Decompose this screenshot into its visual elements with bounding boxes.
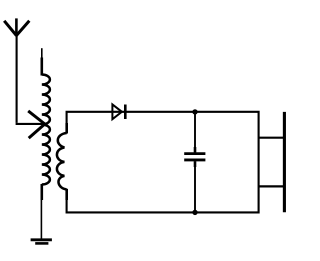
wire tap horizontal (16, 123, 45, 125)
node junction bottom (192, 210, 197, 215)
wire tank circuit loop (67, 112, 259, 213)
arrow tap into coil L1 (28, 111, 45, 138)
diode D1 (112, 104, 125, 119)
inductor L2 secondary coil (57, 123, 67, 200)
wire capacitor bottom lead (194, 161, 196, 212)
wire antenna lead down (16, 34, 18, 123)
wire earphone upper lead (259, 137, 284, 139)
earphone BT1 diaphragm bar (283, 112, 286, 212)
node junction top (192, 109, 197, 114)
wire L1 to ground (40, 199, 42, 239)
inductor L1 primary coil (42, 58, 50, 201)
ground (31, 240, 52, 244)
capacitor C1 (184, 154, 205, 160)
wire earphone lower lead (259, 185, 284, 187)
wire capacitor top lead (194, 112, 196, 153)
wire stub above L1 (41, 48, 43, 59)
antenna ANT1 (4, 18, 29, 36)
